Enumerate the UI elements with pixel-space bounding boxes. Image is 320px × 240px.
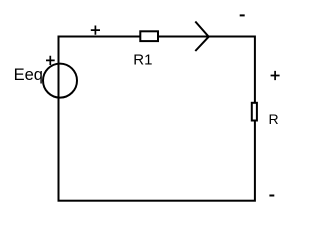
svg-text:Eeq: Eeq: [14, 66, 43, 84]
svg-text:R: R: [269, 111, 279, 127]
svg-text:R1: R1: [133, 52, 152, 69]
